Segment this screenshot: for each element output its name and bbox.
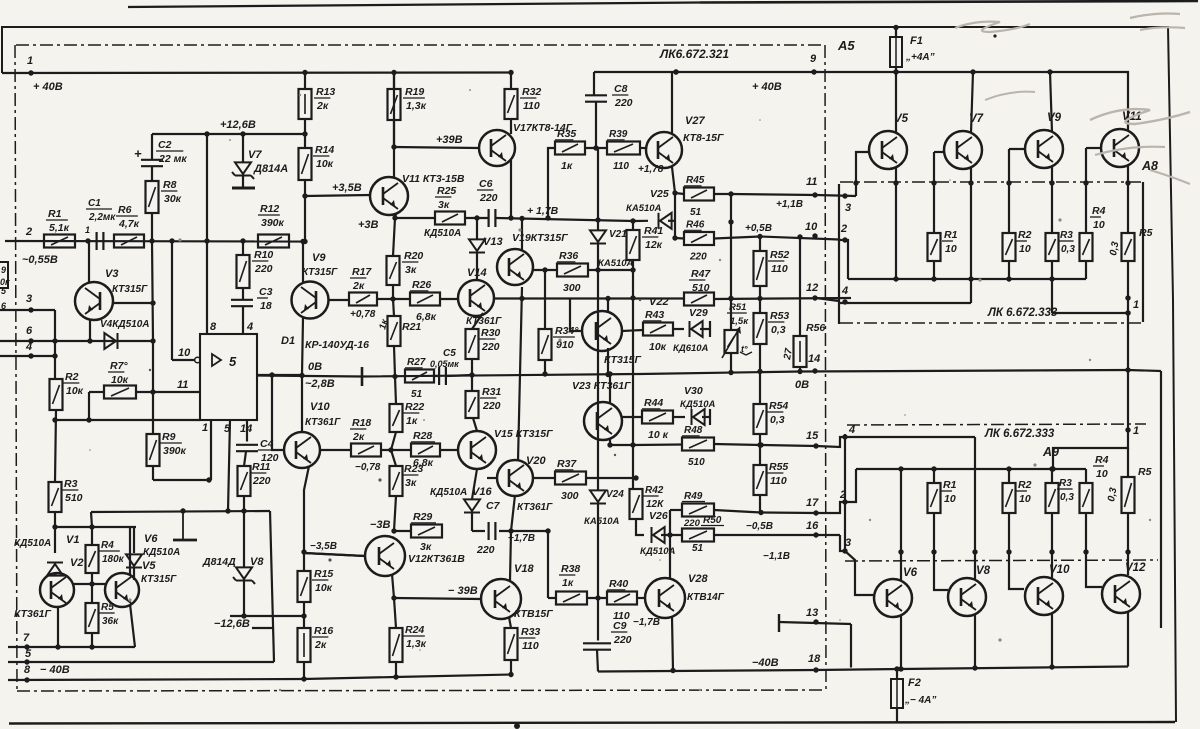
resistor R26 (377, 279, 440, 323)
transistor V27 (646, 115, 724, 168)
resistor R52 (754, 237, 790, 287)
svg-text:„+4А”: „+4А” (905, 52, 935, 63)
svg-text:5,1к: 5,1к (49, 222, 70, 234)
edge pin labels (1, 286, 7, 311)
svg-text:1,3к: 1,3к (406, 100, 427, 112)
svg-text:R49: R49 (684, 491, 703, 502)
wire R21 bottom (392, 346, 397, 379)
pin 15 (806, 430, 819, 449)
wire R9 bottom row480 (153, 466, 212, 483)
wire IC pin14 (240, 420, 252, 442)
wire V5 emitter (130, 604, 135, 647)
wire V12 emitter (1127, 612, 1129, 667)
wire V20 base stub (487, 477, 497, 479)
wire R16 bottom (301, 662, 306, 682)
svg-text:3: 3 (26, 293, 32, 305)
transistor V6 A9 (874, 567, 918, 617)
svg-text:V30: V30 (684, 385, 703, 397)
transistor V12 A9 (1102, 562, 1146, 613)
pin 17 -0.5V (746, 497, 819, 532)
diode V25 (626, 188, 675, 229)
label +40V (33, 81, 63, 93)
resistor R55 (754, 434, 789, 513)
resistor R1 (44, 208, 75, 248)
svg-text:V26: V26 (649, 510, 668, 522)
wire C2 top (151, 134, 153, 160)
svg-text:0В: 0В (308, 361, 322, 373)
wire V12 base (1086, 552, 1102, 587)
resistor R19 (388, 73, 427, 121)
svg-text:7: 7 (23, 632, 30, 644)
wire C4-R11 (241, 452, 246, 514)
fuse F1 (890, 25, 935, 75)
capacitor C1 (86, 198, 116, 250)
resistor R56 (782, 234, 825, 374)
svg-text:10: 10 (1019, 243, 1031, 255)
svg-text:2к: 2к (352, 280, 365, 292)
svg-text:V1: V1 (66, 534, 79, 546)
svg-text:11: 11 (177, 379, 188, 391)
resistor R28 (381, 430, 440, 469)
wire row298 mid (494, 297, 684, 299)
svg-text:R29: R29 (413, 511, 432, 523)
svg-text:14: 14 (240, 423, 252, 435)
wire V12 base (304, 553, 365, 556)
wire A8 pin3 (816, 193, 856, 214)
resistor R1 A8 (928, 229, 958, 261)
svg-text:V10: V10 (310, 401, 330, 413)
resistor R18 (350, 417, 381, 473)
svg-text:510: 510 (692, 282, 710, 294)
svg-text:V7: V7 (248, 149, 262, 161)
svg-text:R19: R19 (405, 86, 424, 98)
pin row 8 -40V label (24, 664, 70, 683)
svg-text:220: 220 (479, 192, 498, 204)
svg-text:КТ361Г: КТ361Г (14, 608, 52, 620)
resistor R39 (585, 129, 646, 172)
svg-text:КТ315Г: КТ315Г (141, 574, 177, 585)
capacitor C3 (231, 286, 273, 312)
wire V19-V20 column (518, 287, 525, 461)
label KT361G (14, 608, 52, 620)
wire V12 collector (1127, 552, 1129, 575)
svg-text:R3: R3 (1060, 230, 1073, 241)
wire pin13 drop (850, 624, 852, 668)
capacitor C6 (465, 178, 498, 227)
svg-text:12: 12 (806, 282, 818, 294)
resistor R41 (627, 218, 664, 260)
wire row511 (91, 508, 270, 513)
svg-text:1: 1 (1133, 425, 1139, 437)
wire A9 bus469 (856, 468, 1086, 470)
svg-text:V21: V21 (609, 229, 627, 240)
wire V19 collector (521, 218, 523, 250)
svg-text:R8: R8 (163, 179, 177, 191)
diode V4 (100, 319, 150, 349)
pin 10 row (172, 347, 200, 363)
svg-text:R50: R50 (703, 515, 722, 526)
svg-text:10: 10 (945, 243, 957, 255)
resistor R35 (545, 128, 585, 221)
resistor R16 (298, 616, 334, 662)
resistor R3 (49, 478, 83, 512)
svg-text:КТ315Г: КТ315Г (302, 267, 338, 278)
wire R14 bottom (302, 180, 307, 244)
svg-text:2: 2 (25, 226, 32, 238)
wire R5 bottom (89, 633, 94, 650)
wire A8 bus1 (848, 278, 1086, 280)
svg-text:С7: С7 (486, 500, 501, 512)
svg-text:КТ8-15Г: КТ8-15Г (683, 132, 724, 144)
wire V22-R43 (622, 330, 643, 331)
svg-text:V27: V27 (685, 115, 705, 127)
wire V27 collector (672, 69, 679, 133)
wire R45 right (714, 191, 816, 196)
pin 12 (806, 282, 818, 301)
wire col153 mid (152, 341, 154, 434)
transistor V12 (365, 536, 465, 576)
wire R1 col (931, 152, 945, 282)
resistor R38 (556, 563, 587, 605)
svg-text:R35: R35 (557, 128, 576, 140)
resistor R3 A9 (1046, 466, 1075, 513)
svg-text:−1,7В: −1,7В (508, 533, 535, 544)
wire R51 col (728, 194, 733, 375)
svg-text:F2: F2 (908, 677, 921, 689)
svg-text:1: 1 (27, 55, 33, 67)
diode V16 (430, 486, 492, 531)
label +40V right (752, 81, 782, 93)
svg-text:12к: 12к (645, 239, 663, 251)
test point bar (173, 511, 197, 540)
resistor R7 (104, 360, 136, 399)
wire V28 base (637, 597, 645, 599)
wire cluster top rail row527 (55, 526, 136, 528)
wire V19 emitter right (533, 267, 557, 272)
svg-text:10: 10 (178, 347, 191, 359)
svg-text:−12,6В: −12,6В (214, 618, 250, 630)
resistor R33 (505, 626, 541, 660)
svg-text:Д814Д: Д814Д (202, 556, 236, 568)
wire +12.6V rail (152, 131, 305, 136)
pin row 7 (8, 632, 135, 650)
svg-text:0,05мк: 0,05мк (430, 359, 459, 369)
svg-text:V13: V13 (483, 236, 503, 248)
transistor V28 (645, 573, 725, 618)
svg-text:R38: R38 (561, 563, 580, 575)
resistor R5 (86, 584, 120, 633)
svg-text:4: 4 (848, 424, 855, 436)
svg-text:5: 5 (229, 354, 237, 369)
svg-text:2к: 2к (352, 431, 365, 443)
svg-text:+3,5В: +3,5В (332, 182, 362, 194)
capacitor C8 (585, 69, 679, 150)
svg-text:КТ361Г: КТ361Г (305, 417, 341, 428)
wire V3 collector (88, 241, 90, 283)
svg-text:КР-140УД-16: КР-140УД-16 (305, 339, 369, 351)
svg-text:2: 2 (840, 223, 847, 235)
wire R30 bottom (469, 359, 474, 378)
svg-text:R44: R44 (644, 397, 663, 409)
fuse F2 (891, 666, 936, 722)
wire row12 (714, 296, 851, 301)
wire IC pin1 (202, 420, 211, 480)
svg-text:V9: V9 (1047, 112, 1062, 124)
svg-text:V7: V7 (969, 113, 984, 125)
wire input row (5, 240, 305, 243)
svg-text:4: 4 (25, 341, 32, 353)
wire R46 right row10 (714, 234, 839, 240)
diode V1 (14, 534, 79, 576)
wire V20 right to R37 (533, 477, 555, 479)
svg-text:1,5к: 1,5к (730, 316, 749, 327)
svg-text:51: 51 (411, 389, 423, 400)
wire V10 emitter (1049, 614, 1054, 670)
svg-text:R1: R1 (48, 208, 62, 220)
wire R23 bottom (391, 496, 396, 534)
svg-text:R27: R27 (407, 357, 426, 368)
wire base row 584 (74, 573, 105, 587)
resistor R4 (86, 527, 125, 573)
svg-text:10к: 10к (315, 582, 333, 594)
resistor R2 A8 (1003, 229, 1032, 261)
cut resistor at left edge (0, 262, 10, 288)
wire R36 right (588, 267, 636, 272)
wire V24 column bottom (597, 504, 599, 598)
svg-text:−1,1В: −1,1В (763, 551, 790, 562)
svg-text:10к: 10к (111, 374, 129, 386)
resistor R23 (390, 450, 424, 496)
svg-text:510: 510 (65, 492, 83, 504)
svg-text:R42: R42 (645, 485, 664, 496)
svg-text:R1: R1 (944, 229, 958, 241)
wire V5 collector (893, 69, 898, 133)
bar 0V test point (361, 367, 364, 386)
wire R2 bottom (52, 410, 57, 482)
svg-text:2к: 2к (316, 100, 329, 112)
svg-text:КД510А: КД510А (143, 547, 180, 558)
wire R cols to dash row A9 (931, 513, 1130, 555)
svg-text:110: 110 (771, 263, 788, 275)
wire V24 column mid (597, 244, 599, 490)
svg-text:22 мк: 22 мк (158, 153, 187, 165)
module boundary dash-dot A5 (825, 45, 826, 690)
svg-text:V18: V18 (514, 563, 534, 575)
svg-text:R5: R5 (1139, 227, 1153, 239)
svg-text:3: 3 (845, 202, 851, 214)
svg-text:КД610А: КД610А (673, 343, 709, 354)
svg-text:15: 15 (806, 430, 819, 442)
svg-text:R16: R16 (314, 625, 333, 637)
wire col270 (270, 511, 274, 662)
svg-text:0,3: 0,3 (1060, 492, 1074, 503)
svg-text:180к: 180к (102, 554, 125, 565)
svg-text:−1,7В: −1,7В (633, 617, 660, 628)
svg-text:0к: 0к (0, 277, 10, 287)
A8 box right edge (1142, 182, 1144, 322)
svg-text:V23 КТ361Г: V23 КТ361Г (572, 380, 631, 392)
label LK6.672.333 top (987, 307, 1058, 319)
svg-text:R43: R43 (645, 309, 664, 321)
frame dash-dot left (15, 45, 17, 692)
wire V5 emitter (893, 167, 898, 282)
svg-text:V3: V3 (105, 268, 118, 280)
svg-text:220: 220 (252, 475, 271, 487)
node R6 out (149, 238, 174, 243)
svg-text:R54: R54 (769, 400, 788, 412)
svg-text:− 40В: − 40В (40, 664, 70, 676)
svg-text:V14: V14 (467, 267, 487, 279)
resistor R21 (377, 299, 421, 346)
svg-text:18: 18 (808, 653, 821, 665)
svg-text:Д814А: Д814А (253, 163, 288, 175)
transistor V11 (370, 173, 465, 215)
diode V26 (640, 510, 682, 557)
wire C2-R8 (151, 167, 153, 182)
resistor R8 (146, 179, 182, 213)
wire V6 collector (898, 466, 903, 580)
resistor R5 A8 (1108, 227, 1152, 261)
svg-text:R55: R55 (769, 461, 788, 473)
frame dash-dot bottom (17, 690, 826, 691)
svg-text:V4КД510А: V4КД510А (100, 319, 150, 330)
diode V24 (584, 489, 624, 527)
svg-text:4,7к: 4,7к (118, 218, 140, 230)
svg-text:V5: V5 (894, 113, 909, 125)
wire C6 right (474, 215, 633, 221)
wire V1-V2 (55, 557, 83, 576)
svg-text:V25: V25 (650, 188, 669, 200)
svg-text:220: 220 (689, 252, 707, 263)
transistor V7 (944, 113, 984, 169)
transistor V14 (458, 267, 502, 327)
pin row 6 (0, 325, 156, 344)
svg-text:R3: R3 (1059, 478, 1072, 489)
svg-text:27: 27 (782, 347, 795, 361)
transistor V3 (75, 268, 148, 320)
pin row 4 (0, 341, 55, 359)
resistor R2 A9 (1003, 466, 1032, 513)
svg-text:R24: R24 (405, 624, 424, 636)
svg-text:V9: V9 (312, 252, 326, 264)
svg-text:R48: R48 (684, 425, 703, 436)
resistor R27 (405, 357, 434, 400)
wire col1128 down (1125, 261, 1130, 430)
svg-text:С3: С3 (259, 286, 273, 298)
wire V22 collector top (605, 296, 610, 313)
svg-text:6: 6 (26, 325, 33, 337)
svg-text:1: 1 (85, 225, 90, 235)
wire V10 base (1009, 552, 1024, 589)
svg-text:V12КТ361В: V12КТ361В (408, 553, 465, 565)
svg-text:−0,78: −0,78 (355, 462, 381, 473)
wire V26 node col (670, 510, 682, 578)
capacitor C5 (430, 348, 459, 385)
svg-text:−0,5В: −0,5В (746, 521, 773, 532)
A9 dash row (845, 560, 1158, 561)
wire R2 col (1006, 149, 1026, 282)
A8 box left edge (838, 184, 840, 324)
wire R38 col (548, 531, 556, 598)
label +1.7V (527, 205, 559, 217)
resistor R24 (390, 598, 427, 662)
svg-text:R46: R46 (686, 220, 705, 231)
transistor V15 (458, 418, 553, 469)
wire V10-R18 (319, 449, 351, 451)
svg-text:КД510А: КД510А (14, 538, 51, 549)
wire V7 emitter (968, 167, 973, 303)
wire A9 pin2 jog (845, 469, 856, 502)
svg-text:V15 КТ315Г: V15 КТ315Г (494, 428, 553, 440)
svg-text:−3,5В: −3,5В (310, 541, 337, 552)
svg-text:10к: 10к (316, 158, 334, 170)
wire V9a emitter R3 col (1049, 166, 1054, 313)
node 1a (85, 225, 91, 244)
svg-text:V5: V5 (142, 560, 156, 572)
diode V29 (673, 307, 710, 354)
wire V23 base row (621, 416, 642, 418)
svg-text:V8: V8 (250, 556, 264, 568)
svg-text:R17: R17 (352, 266, 372, 278)
resistor R50 (682, 515, 724, 554)
svg-text:+39В: +39В (436, 134, 463, 146)
svg-text:12К: 12К (646, 499, 664, 510)
svg-text:R30: R30 (481, 327, 500, 339)
label -1.7V mid (508, 533, 535, 544)
svg-text:5: 5 (25, 648, 32, 660)
svg-text:0В: 0В (795, 379, 809, 391)
wire R48 right (714, 442, 816, 447)
svg-text:+1,1В: +1,1В (776, 199, 803, 210)
svg-text:110: 110 (522, 640, 539, 652)
svg-text:0,3: 0,3 (1106, 486, 1119, 502)
resistor R22 (390, 377, 425, 451)
wire R50 right row16 (714, 534, 816, 536)
svg-text:R56: R56 (806, 322, 825, 334)
wire R49 right row17 (714, 510, 816, 515)
capacitor C4 (236, 438, 279, 464)
resistor R36 (557, 250, 588, 294)
svg-text:КД510А: КД510А (430, 487, 467, 498)
resistor R34 (539, 270, 580, 360)
wire V9 emitter (302, 318, 303, 375)
svg-text:8: 8 (210, 321, 217, 333)
svg-text:С1: С1 (88, 198, 101, 209)
wire V23 emitter (607, 439, 612, 448)
svg-text:R2: R2 (1018, 479, 1032, 491)
svg-text:4: 4 (246, 321, 253, 333)
resistor R17 (349, 266, 377, 320)
label LK6.672.333 bottom (984, 428, 1055, 440)
svg-text:300: 300 (561, 490, 579, 502)
wire -40V row right (598, 667, 1128, 672)
resistor R9 (147, 431, 187, 466)
wire V9a collector (1047, 69, 1052, 132)
svg-text:R41: R41 (644, 225, 663, 237)
wire V15 base (440, 449, 458, 451)
svg-text:+3В: +3В (358, 219, 379, 231)
svg-text:ЛК 6.672.333: ЛК 6.672.333 (987, 307, 1058, 319)
svg-text:+12,6В: +12,6В (220, 119, 256, 131)
svg-text:220: 220 (254, 263, 273, 275)
svg-text:3к: 3к (420, 541, 432, 553)
svg-text:1к: 1к (377, 317, 391, 331)
svg-text:10: 10 (1096, 468, 1108, 480)
wire A8 pin2 (839, 223, 848, 279)
wire V2 emitter (55, 607, 60, 650)
svg-text:110: 110 (770, 475, 787, 487)
svg-text:КД510А: КД510А (424, 228, 461, 239)
